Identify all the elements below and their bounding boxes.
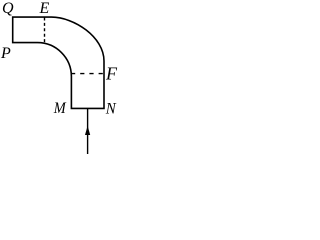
svg-text:Q: Q xyxy=(2,0,14,17)
svg-text:F: F xyxy=(105,63,118,83)
svg-text:E: E xyxy=(39,0,50,17)
svg-text:M: M xyxy=(53,100,67,117)
dashed section line at F xyxy=(71,73,103,75)
arrowhead xyxy=(85,126,90,135)
pipe outline: cap PQ, upper arm, outer bend, down pipe, bottom cap MN, inner bend xyxy=(13,17,104,108)
arrow stem xyxy=(87,109,89,154)
svg-text:N: N xyxy=(105,101,117,118)
dashed section line at E xyxy=(44,18,46,43)
svg-text:P: P xyxy=(0,45,11,62)
